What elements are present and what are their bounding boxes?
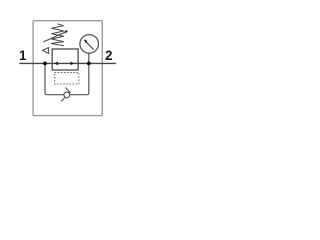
svg-text:2: 2: [105, 48, 113, 63]
svg-text:1: 1: [19, 48, 27, 63]
